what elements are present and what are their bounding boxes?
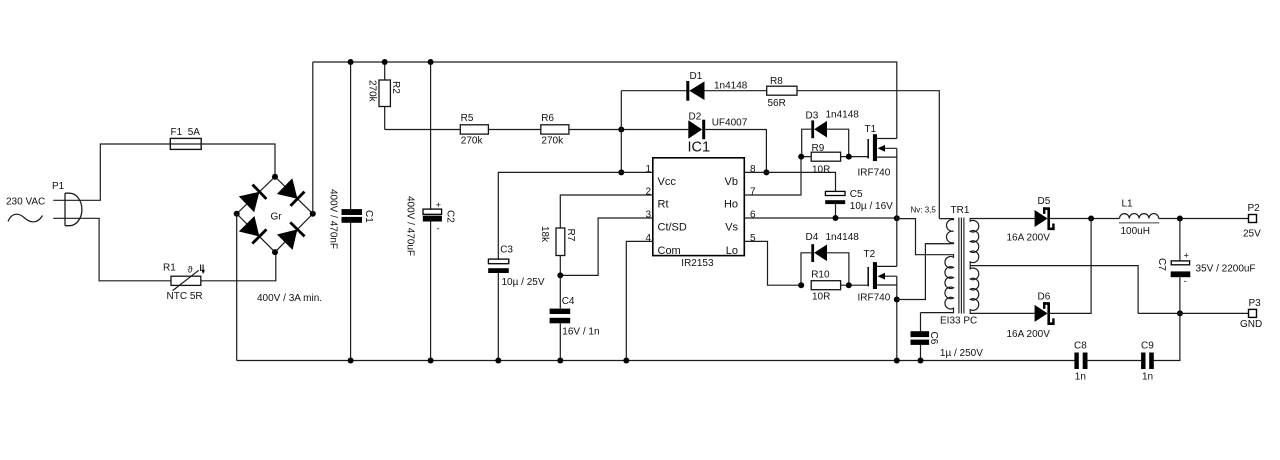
svg-text:270k: 270k (461, 135, 484, 146)
svg-text:10R: 10R (812, 165, 830, 176)
svg-text:C9: C9 (1141, 341, 1154, 352)
svg-text:C4: C4 (562, 296, 575, 307)
svg-text:C3: C3 (500, 245, 513, 256)
junction gate network right T1 (846, 154, 852, 160)
wire Vcc pin 1 to C3 (498, 172, 653, 259)
svg-text:IR2153: IR2153 (681, 258, 714, 269)
svg-text:35V / 2200uF: 35V / 2200uF (1196, 264, 1256, 275)
svg-text:1µ / 250V: 1µ / 250V (940, 348, 983, 359)
inductor L1 100uH (1119, 199, 1159, 238)
svg-text:10R: 10R (812, 292, 830, 303)
svg-text:4: 4 (645, 233, 651, 244)
svg-text:1: 1 (645, 164, 651, 175)
svg-text:Com: Com (658, 245, 681, 257)
svg-text:TR1: TR1 (951, 205, 970, 216)
svg-text:D5: D5 (1038, 196, 1051, 207)
svg-text:400V / 470uF: 400V / 470uF (404, 196, 415, 256)
svg-text:1n: 1n (1075, 372, 1086, 383)
svg-text:2: 2 (645, 187, 651, 198)
transistor T2 IRF740 (858, 249, 897, 303)
wire L1 to P2 (1159, 218, 1249, 220)
svg-text:Gr: Gr (271, 212, 283, 223)
diode D2 UF4007 bootstrap (688, 112, 747, 140)
wire D5 cathode to L1 (1050, 218, 1120, 220)
svg-text:EI33 PC: EI33 PC (940, 316, 977, 327)
aux winding Nv 3,5 turns (925, 219, 953, 244)
svg-text:C6: C6 (928, 332, 939, 345)
junction 0V rail / C4 (557, 358, 563, 364)
core lines (959, 218, 964, 314)
resistor R10 10R (811, 270, 868, 303)
resistor R5 270k (460, 113, 488, 146)
svg-text:D3: D3 (806, 111, 819, 122)
svg-text:16A 200V: 16A 200V (1007, 233, 1051, 244)
svg-text:+: + (436, 200, 442, 211)
svg-text:1n4148: 1n4148 (714, 81, 748, 92)
svg-text:1n4148: 1n4148 (826, 110, 860, 121)
bridge diode (bottom to right arm) (277, 222, 305, 250)
wire live: plug to fuse (53, 144, 170, 200)
junction 0V rail / C3 (495, 358, 501, 364)
junction Vs / C5 (833, 215, 839, 221)
wire R6 to D2 anode (569, 129, 688, 131)
junction output / C7 (1177, 216, 1183, 222)
svg-text:GND: GND (1240, 319, 1262, 330)
diode D6 16A 200V schottky (1007, 292, 1055, 341)
wire C9 riser to GND rail (1154, 313, 1180, 360)
diode D1 1n4148 self-supply (621, 71, 766, 101)
svg-text:NTC 5R: NTC 5R (167, 291, 203, 302)
svg-text:C8: C8 (1074, 341, 1087, 352)
bridge diode (left to bottom arm) (239, 216, 267, 244)
capacitor C7 35V / 2200uF (1156, 219, 1255, 314)
capacitor C3 10u / 25V (488, 245, 545, 361)
junction timing node R7 / C4 / Ct (557, 272, 563, 278)
wire aux winding return to T2 source (897, 244, 951, 300)
fuse F1 (170, 127, 201, 149)
svg-text:C7: C7 (1156, 258, 1167, 271)
svg-text:+: + (1184, 251, 1190, 262)
svg-text:R7: R7 (565, 229, 576, 242)
svg-text:230 VAC: 230 VAC (6, 197, 45, 208)
transformer TR1 EI33 PC (911, 205, 1035, 327)
svg-text:P2: P2 (1248, 203, 1261, 214)
svg-text:C2: C2 (445, 210, 456, 223)
junction 0V rail / C6 (918, 358, 924, 364)
svg-text:D2: D2 (689, 112, 702, 123)
svg-text:R9: R9 (812, 143, 825, 154)
svg-text:1n4148: 1n4148 (826, 232, 860, 243)
junction +rail / R2 (382, 59, 388, 65)
svg-text:Vb: Vb (725, 176, 738, 188)
resistor R6 270k (541, 113, 569, 146)
primary winding (921, 255, 954, 313)
svg-text:Vcc: Vcc (658, 176, 677, 188)
wire Lo pin 5 to gate network T2 (744, 241, 801, 285)
resistor R8 56R (767, 76, 797, 109)
resistor R2 270k bleeder (367, 62, 401, 130)
svg-text:C5: C5 (850, 189, 863, 200)
junction gate network right T2 (846, 282, 852, 288)
bridge diode (top to right arm) (277, 178, 305, 206)
svg-text:-: - (1184, 276, 1187, 287)
svg-text:16V / 1n: 16V / 1n (562, 327, 599, 338)
wire secondary center tap to GND rail (970, 266, 1138, 314)
diode D4 1n4148 (801, 232, 859, 285)
wire Ho pin 7 to gate network T1 (744, 157, 801, 195)
node bridge DC plus (310, 211, 316, 217)
wire T1 body-source to Vs to T2 drain (midpoint bus) (896, 148, 898, 266)
wire GND rail to P3 (1138, 312, 1248, 314)
wire D6 cathode up to D5 cathode (1050, 219, 1091, 314)
capacitor C1 400V / 470nF (328, 62, 375, 361)
svg-text:Lo: Lo (726, 245, 738, 257)
svg-text:P1: P1 (52, 181, 65, 192)
thermistor R1 NTC 5R (163, 263, 205, 303)
wire Rt pin 2 to R7 (560, 195, 653, 228)
wire R2 bottom to R5 (385, 129, 461, 131)
svg-text:Nv: 3,5: Nv: 3,5 (911, 206, 937, 215)
capacitor C4 16V / 1n (550, 275, 600, 360)
wire Vs pin 6 to half-bridge midpoint (744, 217, 897, 219)
junction startup / Vcc riser node (618, 127, 624, 133)
wire +325V top rail to T1 drain (313, 62, 897, 139)
svg-text:R2: R2 (390, 81, 401, 94)
secondary winding top half (970, 219, 1034, 266)
junction GND rail / C7 (1177, 310, 1183, 316)
op-amp driver IC1 IR2153 box (645, 140, 756, 270)
svg-text:10µ / 25V: 10µ / 25V (502, 277, 545, 288)
svg-text:16A 200V: 16A 200V (1007, 329, 1051, 340)
junction 0V rail / T2 source (894, 358, 900, 364)
junction 0V rail / C1 (348, 358, 354, 364)
wire neutral: plug to thermistor R1 (53, 218, 171, 280)
junction 0V rail / Com (623, 358, 629, 364)
svg-text:R1: R1 (163, 263, 176, 274)
diode D5 16A 200V schottky (1007, 196, 1055, 244)
svg-text:56R: 56R (768, 98, 786, 109)
svg-text:R8: R8 (770, 76, 783, 87)
wire Vb pin 8 to C5 top (744, 172, 835, 191)
svg-text:IRF740: IRF740 (858, 168, 891, 179)
wire R8 to transformer aux winding riser (797, 91, 939, 219)
svg-text:3: 3 (645, 210, 651, 221)
wire D2 cathode to Vb pin 8 (705, 130, 766, 173)
junction T2 source / aux winding return (894, 297, 900, 303)
svg-text:100uH: 100uH (1121, 226, 1150, 237)
wire Vcc riser (D1 line down to Vcc pin line) (620, 91, 622, 173)
AC tilde symbol (8, 214, 43, 222)
svg-text:5: 5 (750, 233, 756, 244)
svg-text:T2: T2 (864, 249, 876, 260)
junction +rail / C1 (348, 59, 354, 65)
svg-text:270k: 270k (367, 80, 378, 103)
capacitor C9 1n (1141, 341, 1154, 383)
svg-text:D4: D4 (806, 232, 819, 243)
junction Vcc line / riser (618, 169, 624, 175)
wire C8 to C9 (1088, 360, 1142, 362)
svg-text:Vs: Vs (725, 221, 738, 233)
resistor R7 18k (539, 226, 576, 275)
svg-text:D6: D6 (1038, 292, 1051, 303)
wire T2 source to 0V rail (896, 276, 898, 360)
svg-text:IRF740: IRF740 (858, 292, 891, 303)
svg-text:10µ / 16V: 10µ / 16V (850, 201, 893, 212)
svg-text:ϑ: ϑ (188, 265, 194, 276)
svg-text:6: 6 (750, 210, 756, 221)
svg-text:400V / 470nF: 400V / 470nF (328, 189, 339, 249)
wire 0V bottom rail (237, 360, 1075, 362)
svg-text:25V: 25V (1243, 229, 1261, 240)
svg-text:400V / 3A min.: 400V / 3A min. (257, 293, 322, 304)
svg-text:7: 7 (750, 187, 756, 198)
capacitor C2 400V / 470uF (404, 62, 455, 361)
svg-text:Ct/SD: Ct/SD (658, 221, 687, 233)
svg-text:D1: D1 (690, 71, 703, 82)
connector P1 mains plug (52, 181, 82, 226)
node bridge AC bottom (272, 249, 278, 255)
svg-text:UF4007: UF4007 (712, 118, 748, 129)
svg-text:F1 5A: F1 5A (171, 127, 201, 138)
svg-text:18k: 18k (539, 226, 550, 243)
junction gate network left T1 (798, 154, 804, 160)
junction 0V rail / C2 (428, 358, 434, 364)
resistor R9 10R (801, 143, 868, 176)
node bridge AC top (272, 174, 278, 180)
junction Vb line / D2 riser (763, 169, 769, 175)
transistor T1 IRF740 (858, 124, 897, 179)
svg-text:1n: 1n (1142, 372, 1153, 383)
svg-text:L1: L1 (1122, 199, 1134, 210)
junction D5/D6 cathodes (1088, 216, 1094, 222)
svg-text:270k: 270k (541, 135, 564, 146)
junction Vs / midpoint (894, 215, 900, 221)
junction +rail / C2 (428, 59, 434, 65)
bridge rectifier Gr 400V / 3A min. (234, 174, 322, 304)
secondary winding bottom half (970, 266, 1034, 314)
junction gate network left T2 (798, 282, 804, 288)
svg-text:T1: T1 (865, 124, 877, 135)
svg-text:Ho: Ho (724, 198, 738, 210)
svg-text:C1: C1 (363, 210, 374, 223)
svg-text:R6: R6 (541, 113, 554, 124)
diode D3 1n4148 (802, 110, 860, 157)
capacitor C8 1n (1074, 341, 1088, 383)
svg-text:Rt: Rt (658, 198, 669, 210)
wire Ct/SD pin 3 to timing node (560, 218, 653, 275)
svg-text:-: - (437, 224, 440, 235)
capacitor C6 1u / 250V primary DC block (911, 313, 984, 361)
svg-text:IC1: IC1 (688, 140, 711, 156)
wire thermistor to bridge AC bottom (201, 252, 276, 281)
connector P2 +25V output (1243, 203, 1261, 240)
node bridge DC minus (234, 211, 240, 217)
wire R5 to R6 (488, 129, 540, 131)
svg-text:R5: R5 (461, 113, 474, 124)
wire bridge minus down to 0V rail (236, 214, 238, 361)
capacitor C5 10u / 16V bootstrap (825, 189, 893, 218)
wire bridge plus up to +325V rail (312, 62, 314, 214)
svg-text:P3: P3 (1249, 298, 1262, 309)
bridge diode (left to top arm) (239, 184, 267, 212)
wire fuse to bridge AC top (201, 144, 275, 177)
svg-text:8: 8 (750, 164, 756, 175)
wire midpoint to primary winding top (897, 219, 951, 255)
svg-text:R10: R10 (811, 270, 830, 281)
wire Com pin 4 to 0V rail (626, 241, 653, 360)
connector P3 GND output (1240, 298, 1262, 330)
